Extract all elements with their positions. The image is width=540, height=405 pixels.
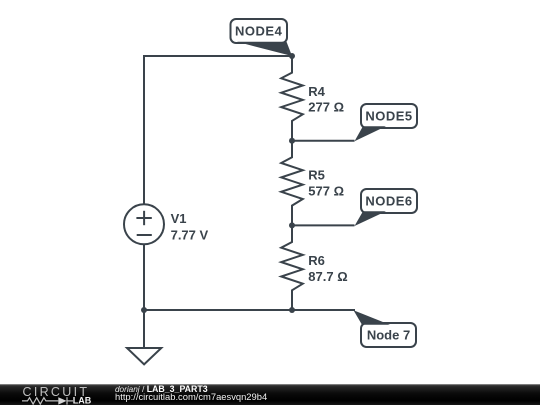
- node dot NODE4: [289, 53, 295, 59]
- wire bottom rail: [144, 309, 355, 311]
- node label Node 7: [354, 310, 417, 347]
- svg-text:NODE6: NODE6: [365, 194, 412, 209]
- svg-text:http://circuitlab.com/cm7aesvq: http://circuitlab.com/cm7aesvqn29b4: [115, 391, 267, 402]
- voltage source V1: [124, 204, 164, 244]
- node dot NODE6: [289, 222, 295, 228]
- node junction dots: [141, 53, 295, 313]
- svg-text:Node 7: Node 7: [367, 328, 410, 343]
- wire top rail from V1 to NODE4: [144, 56, 292, 204]
- svg-text:7.77 V: 7.77 V: [171, 228, 209, 243]
- node label NODE6: [355, 189, 418, 226]
- node dot NODE5: [289, 138, 295, 144]
- node label NODE5: [355, 104, 418, 141]
- footer bar: [0, 384, 540, 405]
- component value labels: [171, 84, 348, 284]
- wire V1 bottom lead: [143, 244, 145, 310]
- node dot bottom rail right: [289, 307, 295, 313]
- resistor R4: [281, 56, 303, 141]
- svg-text:577 Ω: 577 Ω: [308, 184, 344, 199]
- V1 plus sign: [136, 211, 151, 235]
- svg-text:NODE5: NODE5: [365, 109, 412, 124]
- wire node6 branch: [292, 224, 355, 226]
- V1 minus sign: [137, 234, 152, 236]
- svg-text:R4: R4: [308, 84, 325, 99]
- wire node5 branch: [292, 140, 355, 142]
- node dot bottom rail left: [141, 307, 147, 313]
- node label NODE4: [231, 19, 293, 56]
- svg-text:87.7 Ω: 87.7 Ω: [308, 269, 347, 284]
- logo diode triangle: [58, 397, 66, 404]
- svg-text:V1: V1: [171, 211, 187, 226]
- ground: [127, 348, 161, 364]
- svg-text:277 Ω: 277 Ω: [308, 99, 344, 114]
- resistor R5: [281, 141, 303, 226]
- wire ground stem: [143, 310, 145, 348]
- svg-text:R5: R5: [308, 168, 325, 183]
- resistor R6: [281, 225, 303, 310]
- svg-text:R6: R6: [308, 253, 325, 268]
- svg-text:NODE4: NODE4: [235, 24, 283, 39]
- svg-text:LAB: LAB: [73, 396, 92, 405]
- logo resistor-diode line: [22, 397, 73, 404]
